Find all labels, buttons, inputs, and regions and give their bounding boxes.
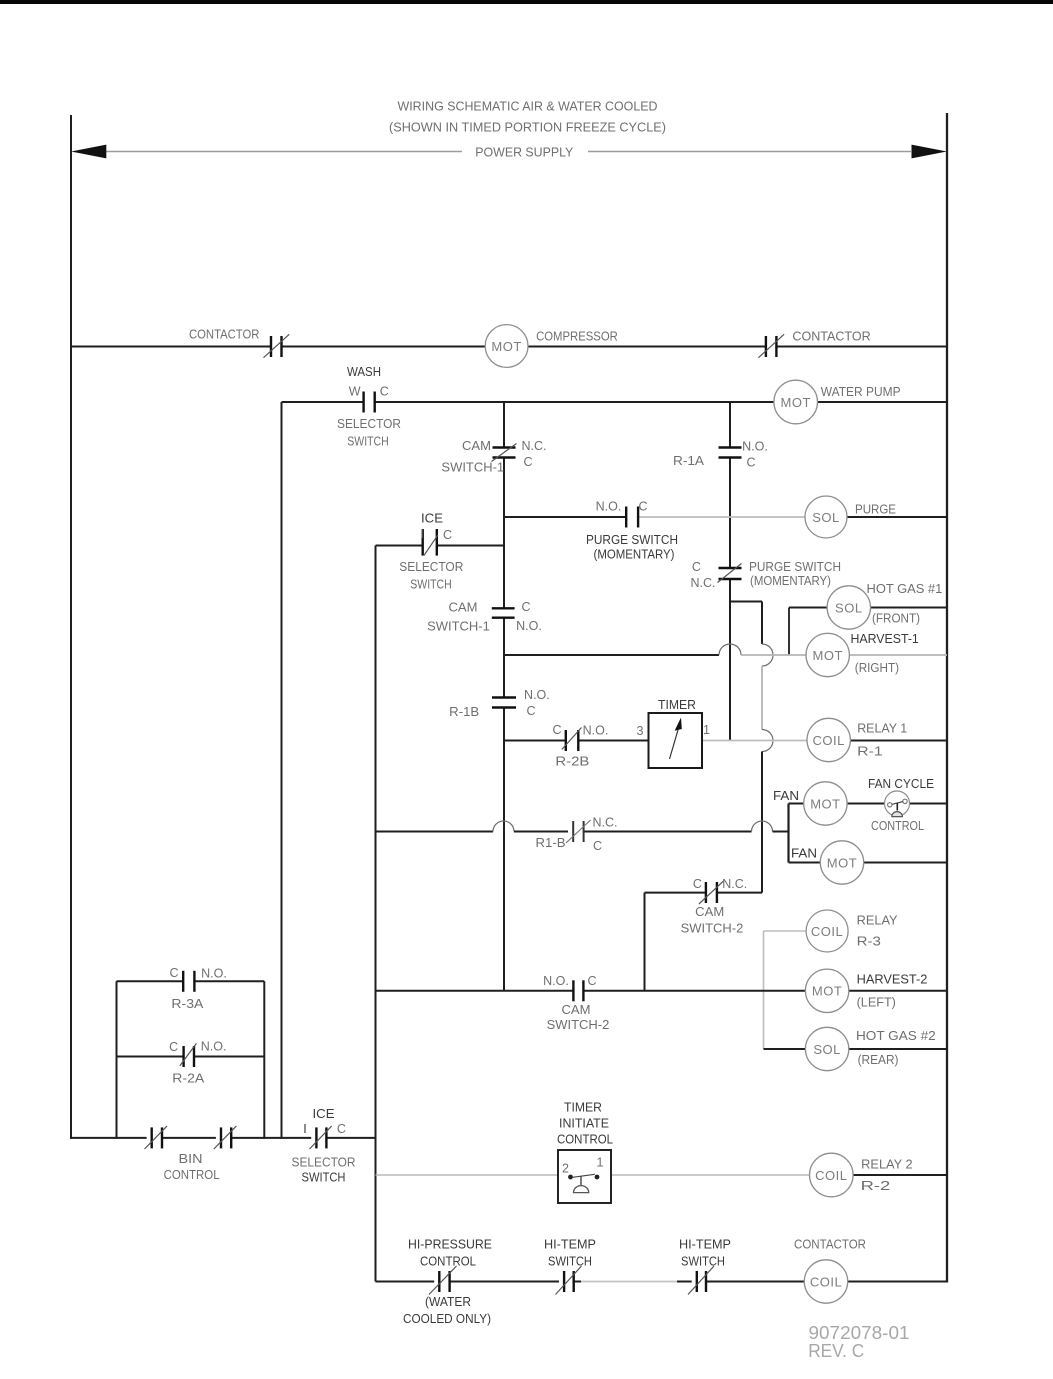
wire ice selector vertical xyxy=(375,546,377,1282)
contact CAM SWITCH-1 N.O. xyxy=(427,600,542,634)
svg-text:HI-PRESSURE: HI-PRESSURE xyxy=(408,1238,492,1252)
svg-text:RELAY 2: RELAY 2 xyxy=(861,1157,912,1171)
contact R-2A N.O. xyxy=(169,1039,226,1085)
svg-text:HARVEST-1: HARVEST-1 xyxy=(851,632,919,646)
motor MOT harvest-1 xyxy=(806,632,919,677)
svg-text:N.C.: N.C. xyxy=(691,576,716,590)
wire R-3A row xyxy=(117,980,265,982)
contact R-2B N.O. xyxy=(552,723,608,769)
svg-text:MOT: MOT xyxy=(813,648,843,663)
top border bar xyxy=(0,0,1053,4)
wire bin box verticals xyxy=(117,981,265,1139)
svg-text:C: C xyxy=(380,384,389,398)
switch HI-TEMP SWITCH 1 xyxy=(544,1238,596,1295)
coil COIL relay R-3 xyxy=(764,910,899,952)
motor MOT compressor xyxy=(485,325,618,368)
svg-text:(FRONT): (FRONT) xyxy=(872,611,920,625)
switch HI-PRESSURE CONTROL xyxy=(403,1238,492,1327)
timer TIMER INITIATE CONTROL box xyxy=(557,1101,613,1204)
svg-text:COIL: COIL xyxy=(815,1168,847,1183)
svg-text:FAN: FAN xyxy=(773,789,799,803)
wire relay vertical (R-1A branch) xyxy=(729,402,731,741)
solenoid SOL hot gas #2 xyxy=(764,1027,948,1070)
svg-text:RELAY: RELAY xyxy=(857,913,899,927)
wire harvest-2 row xyxy=(376,990,948,992)
svg-text:CONTROL: CONTROL xyxy=(557,1133,613,1147)
svg-text:COMPRESSOR: COMPRESSOR xyxy=(536,330,618,344)
svg-text:HOT GAS #1: HOT GAS #1 xyxy=(867,582,943,596)
wire main vertical (cam switch branch) xyxy=(503,402,505,991)
svg-text:PURGE: PURGE xyxy=(855,503,896,517)
svg-text:CONTROL: CONTROL xyxy=(420,1255,476,1269)
contact CONTACTOR (right, N.C.) xyxy=(758,330,870,358)
switch ICE selector I-C (upper) xyxy=(376,512,505,592)
contact R-1B N.O. xyxy=(449,688,550,719)
svg-text:MOT: MOT xyxy=(827,855,857,870)
svg-text:HOT GAS #2: HOT GAS #2 xyxy=(856,1029,936,1043)
motor MOT water pump xyxy=(774,380,901,424)
switch WASH selector W-C xyxy=(337,365,401,448)
svg-text:COIL: COIL xyxy=(810,1274,842,1289)
wire timer initiate row xyxy=(376,1174,948,1176)
svg-text:HI-TEMP: HI-TEMP xyxy=(679,1238,731,1252)
svg-text:RELAY 1: RELAY 1 xyxy=(857,722,907,736)
svg-text:R-2: R-2 xyxy=(861,1179,891,1193)
svg-text:R-2B: R-2B xyxy=(555,755,589,769)
svg-text:N.O.: N.O. xyxy=(201,966,227,980)
wire fan-2 row xyxy=(789,862,948,864)
svg-text:C: C xyxy=(746,456,755,470)
svg-text:SWITCH-2: SWITCH-2 xyxy=(681,922,744,936)
wire timer row xyxy=(504,740,947,742)
svg-text:TIMER: TIMER xyxy=(564,1101,602,1115)
contact BIN CONTROL 2 xyxy=(164,1126,237,1182)
svg-text:CONTACTOR: CONTACTOR xyxy=(792,330,870,344)
svg-text:(MOMENTARY): (MOMENTARY) xyxy=(594,548,675,562)
svg-text:N.O.: N.O. xyxy=(543,974,569,988)
wire safety row xyxy=(376,1281,948,1283)
svg-text:MOT: MOT xyxy=(491,339,521,354)
svg-text:WASH: WASH xyxy=(347,365,381,379)
contact CONTACTOR (left, N.C.) xyxy=(189,328,289,358)
svg-text:CONTROL: CONTROL xyxy=(871,819,924,833)
wire fan feeder row xyxy=(376,821,789,832)
svg-text:3: 3 xyxy=(637,724,644,738)
wire fan-1 row xyxy=(789,803,948,805)
svg-text:SWITCH: SWITCH xyxy=(410,577,452,591)
wire compressor row xyxy=(70,346,947,348)
svg-text:MOT: MOT xyxy=(781,395,811,410)
svg-text:N.C.: N.C. xyxy=(722,877,747,891)
svg-text:C: C xyxy=(692,560,701,574)
svg-text:SWITCH-2: SWITCH-2 xyxy=(547,1018,610,1032)
switch FAN CYCLE CONTROL xyxy=(868,777,934,833)
svg-text:I: I xyxy=(303,1122,306,1136)
wire jog from purge N.C. to bypass vertical xyxy=(730,601,762,603)
svg-text:INITIATE: INITIATE xyxy=(559,1117,609,1131)
svg-text:ICE: ICE xyxy=(313,1107,335,1121)
svg-text:POWER SUPPLY: POWER SUPPLY xyxy=(475,146,574,160)
wire relay-3 branch vertical xyxy=(763,931,765,1049)
wire left power rail L1 xyxy=(70,115,72,1139)
wire right power rail L2 xyxy=(946,113,948,1283)
svg-text:R-3A: R-3A xyxy=(171,997,204,1011)
wire bin control row xyxy=(70,1137,376,1139)
svg-text:(MOMENTARY): (MOMENTARY) xyxy=(750,574,831,588)
svg-text:2: 2 xyxy=(562,1162,569,1176)
svg-text:N.O.: N.O. xyxy=(583,724,609,738)
solenoid SOL purge xyxy=(805,496,896,538)
svg-text:(LEFT): (LEFT) xyxy=(857,996,896,1010)
svg-text:HI-TEMP: HI-TEMP xyxy=(544,1238,596,1252)
svg-text:W: W xyxy=(349,384,361,398)
svg-text:CAM: CAM xyxy=(462,439,491,453)
svg-text:C: C xyxy=(587,974,596,988)
contact BIN CONTROL 1 xyxy=(145,1126,168,1149)
svg-text:SOL: SOL xyxy=(812,510,840,525)
svg-text:1: 1 xyxy=(597,1156,604,1170)
svg-text:SWITCH: SWITCH xyxy=(548,1255,592,1269)
motor MOT harvest-2 xyxy=(805,969,927,1012)
switch ICE selector I-C (lower) xyxy=(292,1107,356,1184)
svg-text:COOLED ONLY): COOLED ONLY) xyxy=(403,1312,491,1326)
svg-text:WATER PUMP: WATER PUMP xyxy=(821,385,901,399)
wire water pump row xyxy=(282,401,948,403)
svg-text:CAM: CAM xyxy=(449,600,478,614)
svg-text:R-1B: R-1B xyxy=(449,705,479,719)
wire hot gas branch vertical xyxy=(788,608,790,656)
svg-text:C: C xyxy=(523,455,532,469)
wire wash selector vertical xyxy=(281,402,283,1139)
wire purge row xyxy=(504,516,947,518)
svg-text:R-3: R-3 xyxy=(857,934,881,948)
svg-text:TIMER: TIMER xyxy=(658,698,696,712)
svg-text:SWITCH: SWITCH xyxy=(302,1170,346,1184)
svg-text:SWITCH-1: SWITCH-1 xyxy=(441,461,504,475)
title text xyxy=(389,99,666,134)
svg-text:SOL: SOL xyxy=(813,1042,841,1057)
contact R-1A N.O. xyxy=(673,440,768,470)
svg-text:SELECTOR: SELECTOR xyxy=(292,1156,356,1170)
svg-text:R1-B: R1-B xyxy=(536,836,566,850)
svg-text:C: C xyxy=(169,1040,178,1054)
coil COIL relay 2 xyxy=(810,1153,913,1197)
contact CAM SWITCH-2 N.O. xyxy=(543,974,609,1032)
svg-text:1: 1 xyxy=(703,723,710,737)
wire cam switch-2 N.C. row xyxy=(645,892,763,894)
svg-text:N.O.: N.O. xyxy=(201,1039,227,1053)
svg-text:CONTROL: CONTROL xyxy=(164,1168,220,1182)
svg-text:(REAR): (REAR) xyxy=(858,1053,899,1067)
svg-text:WIRING SCHEMATIC AIR & WATER C: WIRING SCHEMATIC AIR & WATER COOLED xyxy=(398,99,658,113)
switch PURGE SWITCH momentary N.C. (on vertical) xyxy=(691,560,842,590)
svg-text:SWITCH-1: SWITCH-1 xyxy=(427,620,490,634)
svg-text:N.C.: N.C. xyxy=(593,816,618,830)
svg-text:C: C xyxy=(169,966,178,980)
svg-text:R-2A: R-2A xyxy=(172,1071,205,1085)
svg-text:N.C.: N.C. xyxy=(522,439,547,453)
svg-text:HARVEST-2: HARVEST-2 xyxy=(857,973,928,987)
coil COIL contactor xyxy=(794,1238,866,1304)
svg-text:C: C xyxy=(521,600,530,614)
wire R-2A row xyxy=(117,1056,265,1058)
svg-text:CAM: CAM xyxy=(695,905,724,919)
svg-text:C: C xyxy=(552,723,561,737)
svg-text:SELECTOR: SELECTOR xyxy=(399,560,463,574)
svg-text:N.O.: N.O. xyxy=(742,440,768,454)
svg-text:N.O.: N.O. xyxy=(516,619,542,633)
svg-text:(RIGHT): (RIGHT) xyxy=(855,661,899,675)
svg-text:SOL: SOL xyxy=(835,600,863,615)
svg-text:SWITCH: SWITCH xyxy=(681,1255,725,1269)
svg-text:(WATER: (WATER xyxy=(425,1295,471,1309)
svg-text:BIN: BIN xyxy=(179,1152,203,1166)
svg-text:C: C xyxy=(526,704,535,718)
solenoid SOL hot gas #1 xyxy=(789,582,947,629)
svg-text:(SHOWN IN TIMED PORTION FREEZE: (SHOWN IN TIMED PORTION FREEZE CYCLE) xyxy=(389,120,666,134)
svg-text:REV. C: REV. C xyxy=(808,1340,864,1361)
wire fan branch vertical xyxy=(787,804,789,863)
contact CAM SWITCH-2 N.C. xyxy=(681,877,748,936)
drawing number 9072078-01 REV. C xyxy=(808,1322,909,1361)
svg-text:CAM: CAM xyxy=(562,1003,591,1017)
switch HI-TEMP SWITCH 2 xyxy=(679,1238,731,1295)
svg-text:SWITCH: SWITCH xyxy=(347,434,389,448)
svg-text:MOT: MOT xyxy=(810,796,840,811)
timer TIMER box xyxy=(637,698,711,768)
svg-text:FAN: FAN xyxy=(791,846,817,860)
contact R-3A N.O. xyxy=(169,966,226,1011)
motor MOT fan-1 xyxy=(773,782,847,825)
svg-text:R-1A: R-1A xyxy=(673,454,705,468)
svg-text:C: C xyxy=(593,839,602,853)
svg-text:I: I xyxy=(420,527,423,541)
contact R1-B N.C. xyxy=(536,816,618,854)
svg-text:CONTACTOR: CONTACTOR xyxy=(794,1238,866,1252)
svg-text:PURGE SWITCH: PURGE SWITCH xyxy=(749,560,841,574)
svg-text:SELECTOR: SELECTOR xyxy=(337,417,401,431)
svg-text:ICE: ICE xyxy=(421,512,443,526)
wire bypass vertical xyxy=(762,602,773,893)
svg-text:COIL: COIL xyxy=(813,733,845,748)
svg-text:N.O.: N.O. xyxy=(596,500,622,514)
svg-text:C: C xyxy=(638,500,647,514)
svg-text:R-1: R-1 xyxy=(857,745,883,759)
svg-text:C: C xyxy=(337,1122,346,1136)
svg-text:PURGE SWITCH: PURGE SWITCH xyxy=(586,533,678,547)
svg-text:CONTACTOR: CONTACTOR xyxy=(189,328,259,342)
svg-text:COIL: COIL xyxy=(811,924,843,939)
svg-text:N.O.: N.O. xyxy=(524,688,550,702)
coil COIL relay 1 xyxy=(807,718,907,761)
node POWER SUPPLY xyxy=(71,145,947,160)
wire cam switch-2 corner vertical xyxy=(644,893,646,991)
svg-text:FAN CYCLE: FAN CYCLE xyxy=(868,777,934,791)
motor MOT fan-2 xyxy=(791,841,864,884)
svg-text:C: C xyxy=(443,528,452,542)
contact CAM SWITCH-1 N.C. xyxy=(441,439,546,475)
svg-text:MOT: MOT xyxy=(812,984,842,999)
wire harvest-1 row xyxy=(504,644,947,655)
switch PURGE SWITCH momentary N.O. xyxy=(586,500,678,562)
svg-text:C: C xyxy=(693,877,702,891)
